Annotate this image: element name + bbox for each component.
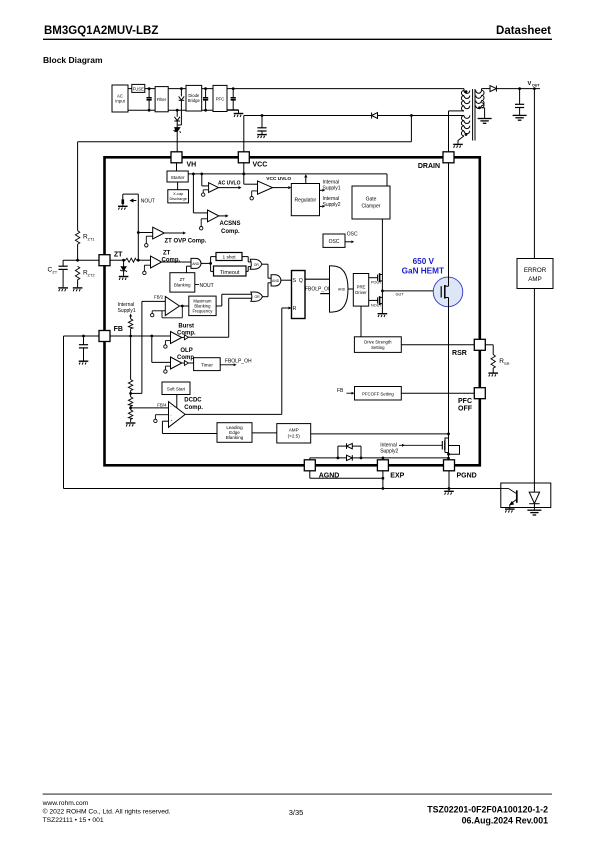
Drive Strength Setting box <box>360 306 362 337</box>
svg-text:SR: SR <box>504 361 510 366</box>
svg-text:ERROR: ERROR <box>524 267 547 274</box>
Starter box <box>167 171 188 182</box>
transformer secondary winding <box>476 89 485 118</box>
wires to OR1 <box>242 257 252 272</box>
driver output FET high side <box>369 273 383 291</box>
wire NOUT rail down to ZT comparators <box>137 194 139 260</box>
pin PGND <box>444 460 455 471</box>
svg-text:VCC: VCC <box>253 162 268 169</box>
svg-text:OR: OR <box>254 263 260 267</box>
comparator DCDC <box>169 402 186 428</box>
svg-text:Q: Q <box>299 278 303 284</box>
capacitor CFB <box>83 336 85 361</box>
FB/2 ref + feedback <box>152 306 182 318</box>
svg-text:Bridge: Bridge <box>188 98 201 103</box>
svg-text:PFCOFF Setting: PFCOFF Setting <box>362 392 394 397</box>
svg-text:OSC: OSC <box>347 232 358 238</box>
svg-text:Comp.: Comp. <box>221 229 240 235</box>
wire ZT pin internal with series resistor <box>110 259 151 261</box>
svg-text:NOUT: NOUT <box>200 283 214 289</box>
resistor RZT1 <box>75 231 79 245</box>
svg-text:EXP: EXP <box>390 473 404 480</box>
wire AGND/EXP tie <box>310 471 383 489</box>
svg-text:AND: AND <box>272 279 280 283</box>
wire AC top rail <box>128 88 464 90</box>
wire FB/2 comp to MBF <box>180 305 189 307</box>
comparator FB/2 (max blanking) <box>165 296 179 315</box>
pin VCC <box>238 152 249 163</box>
svg-text:R: R <box>293 306 297 312</box>
wire ZT sense tap <box>78 116 412 231</box>
svg-text:GUT: GUT <box>396 293 405 297</box>
wire secondary ground rail <box>64 488 501 490</box>
wire AND out split to 1shot/Timeout <box>201 257 216 272</box>
svg-text:ZT2: ZT2 <box>88 273 96 278</box>
svg-text:Blanking: Blanking <box>174 283 191 288</box>
gate OR2 <box>251 292 263 301</box>
wire MBF to OR2 <box>216 294 252 306</box>
startup zener to VH <box>174 128 181 153</box>
svg-text:AC UVLO: AC UVLO <box>218 180 241 186</box>
svg-text:Gate: Gate <box>366 197 377 203</box>
Gate Clamper box <box>352 186 390 219</box>
svg-text:GaN HEMT: GaN HEMT <box>402 266 444 275</box>
OSC box <box>323 234 345 247</box>
wire Starter output to VCC rail <box>188 173 387 175</box>
wire VCC UVLO output <box>273 187 289 189</box>
wire AC UVLO input <box>202 174 209 186</box>
wire AMP to sense node <box>311 433 449 435</box>
svg-text:Block Diagram: Block Diagram <box>43 55 103 65</box>
svg-text:Drive Strength: Drive Strength <box>364 340 392 345</box>
gate AND (driver enable) <box>330 266 349 312</box>
comparator ZT OVP <box>153 227 165 239</box>
svg-text:3/35: 3/35 <box>289 808 304 817</box>
650 V GaN HEMT <box>433 277 463 307</box>
capacitor CZT <box>59 266 68 269</box>
NOUT discharge switch <box>123 194 139 206</box>
X-capacitor 2 <box>205 89 207 111</box>
wire FB external <box>64 336 100 489</box>
GaN HEMT symbol <box>441 163 448 434</box>
gate OR1 <box>250 259 262 269</box>
VCC capacitor <box>261 116 263 135</box>
svg-text:VCC UVLO: VCC UVLO <box>266 176 291 182</box>
svg-text:Supply2: Supply2 <box>380 449 398 455</box>
svg-text:POUT: POUT <box>371 280 382 284</box>
ZT Blanking box <box>170 273 195 292</box>
node NOUT into ZT Blanking <box>195 284 199 286</box>
AMP x2.5 box <box>277 424 311 443</box>
svg-text:AGND: AGND <box>319 473 340 480</box>
gate AND2 <box>271 275 281 286</box>
svg-text:Internal: Internal <box>323 180 340 186</box>
wire Drive Strength to RSR <box>401 344 474 346</box>
wire FB/2 tap <box>131 301 166 393</box>
opto LED <box>529 483 539 510</box>
wire VCC pin down <box>243 163 245 184</box>
Timer box <box>194 358 221 371</box>
svg-text:© 2022 ROHM Co., Ltd. All righ: © 2022 ROHM Co., Ltd. All rights reserve… <box>43 808 171 816</box>
svg-text:OFF: OFF <box>458 406 473 413</box>
ACSNS ref input <box>201 219 207 227</box>
wire current sense input from LEB <box>162 421 217 433</box>
wire OLP branch <box>152 336 171 362</box>
wire Gate Clamper down to driver rail <box>381 219 383 274</box>
pin DRAIN <box>443 152 454 163</box>
svg-text:NOUT: NOUT <box>371 303 382 307</box>
wire Vout sense down to error amp <box>533 89 535 259</box>
wire big AND to PRE driver <box>348 288 353 290</box>
svg-text:BM3GQ1A2MUV-LBZ: BM3GQ1A2MUV-LBZ <box>44 25 158 37</box>
latch SR <box>292 271 306 319</box>
wire ACSNS output <box>219 215 226 217</box>
OLP output buffer <box>184 361 188 366</box>
X-cap Discharge box <box>168 190 189 203</box>
Regulator input from VCC rail <box>305 175 307 184</box>
transformer core <box>473 89 475 141</box>
output diode <box>490 86 540 92</box>
AC UVLO ref input <box>203 190 208 193</box>
transformer primary winding <box>449 89 470 153</box>
Diode Bridge box <box>186 85 202 111</box>
svg-text:VH: VH <box>187 162 197 169</box>
svg-text:FB: FB <box>337 388 344 394</box>
svg-text:Filter: Filter <box>157 97 167 102</box>
transformer aux winding <box>458 116 470 144</box>
wire Burst to OR2 <box>188 298 252 337</box>
svg-text:(×2.5): (×2.5) <box>288 434 301 439</box>
svg-text:PFC: PFC <box>216 96 225 101</box>
svg-text:AMP: AMP <box>528 276 541 283</box>
Filter box <box>155 87 168 112</box>
svg-text:ZT1: ZT1 <box>88 237 96 242</box>
node Internal Supply2 <box>320 205 323 207</box>
svg-text:OSC: OSC <box>329 239 340 245</box>
svg-text:FBOLP_OH: FBOLP_OH <box>225 359 252 365</box>
svg-text:AND: AND <box>192 262 200 266</box>
svg-text:ZT: ZT <box>180 277 186 282</box>
svg-text:FB: FB <box>114 326 123 333</box>
Leading Edge Blanking box <box>217 423 252 443</box>
wire VCC supply line from aux winding <box>244 116 464 153</box>
svg-text:www.rohm.com: www.rohm.com <box>42 800 89 807</box>
PFC box <box>213 85 227 111</box>
gate AND (ZT) <box>191 258 201 268</box>
pin EXP <box>377 460 388 471</box>
svg-text:650 V: 650 V <box>413 257 435 266</box>
1 shot box <box>216 253 242 261</box>
wire PFCOFF to pin <box>401 392 474 394</box>
pin FB <box>99 331 110 342</box>
wire AC UVLO output <box>218 187 238 189</box>
wire ZT OVP input <box>138 232 152 234</box>
svg-text:ACSNS: ACSNS <box>220 221 241 227</box>
comparator Burst <box>171 332 182 344</box>
wire PFC return to ground <box>227 110 239 114</box>
diode DVCC (points left) <box>372 113 378 119</box>
PRE Driver box <box>353 274 368 307</box>
resistor FB pull-up <box>128 319 132 329</box>
FET internal supply2 <box>442 434 459 460</box>
svg-text:TSZ02201-0F2F0A100120-1-2: TSZ02201-0F2F0A100120-1-2 <box>427 805 548 815</box>
svg-text:1 shot: 1 shot <box>222 255 236 261</box>
svg-text:Supply1: Supply1 <box>118 308 136 314</box>
zener clamp at ZT <box>120 260 127 276</box>
Burst output buffer <box>184 335 188 340</box>
FUSE box <box>132 84 145 92</box>
wire ZT Blanking to AND <box>187 266 192 273</box>
svg-text:ZT: ZT <box>163 250 171 256</box>
svg-text:PRE: PRE <box>357 285 366 290</box>
svg-text:TSZ22111 • 15 • 001: TSZ22111 • 15 • 001 <box>43 817 104 824</box>
Timeout box <box>214 266 247 276</box>
DCDC ref input <box>155 415 168 420</box>
svg-text:FBOLP_OH: FBOLP_OH <box>305 287 332 293</box>
wire ZT Comp to AND <box>162 261 191 263</box>
svg-text:Soft Start: Soft Start <box>167 387 186 392</box>
resistor RZT2 <box>75 266 79 280</box>
wire AC bottom rail <box>128 109 239 111</box>
startup diode D1 <box>177 89 184 125</box>
Regulator box <box>291 184 319 216</box>
svg-text:Input: Input <box>115 99 125 104</box>
svg-text:PGND: PGND <box>457 473 477 480</box>
svg-text:06.Aug.2024 Rev.001: 06.Aug.2024 Rev.001 <box>462 816 548 826</box>
wire Soft Start to DCDC <box>176 395 178 409</box>
pin PFC OFF <box>474 388 485 399</box>
Soft Start box <box>162 382 190 395</box>
AC Input box <box>112 85 128 112</box>
svg-text:Timeout: Timeout <box>220 270 240 276</box>
driver output FET low side <box>369 291 383 313</box>
wire OLP to Timer <box>188 362 193 364</box>
svg-text:Burst: Burst <box>178 324 194 330</box>
wire VCC rail to Gate Clamper <box>386 174 388 186</box>
svg-text:RSR: RSR <box>452 350 467 357</box>
AGND clamp diode pair <box>310 446 449 460</box>
svg-text:Supply1: Supply1 <box>323 186 341 192</box>
svg-text:Discharge: Discharge <box>169 196 187 201</box>
X-capacitor 1 <box>148 89 150 111</box>
svg-text:FB/4: FB/4 <box>157 402 167 407</box>
wire secondary to Vout <box>482 88 491 90</box>
svg-text:OUT: OUT <box>532 84 540 88</box>
svg-text:OR: OR <box>254 295 260 299</box>
svg-text:ZT: ZT <box>114 252 123 259</box>
svg-text:Clamper: Clamper <box>362 204 381 210</box>
wire FB/4 tap to DCDC <box>131 407 169 409</box>
svg-text:Supply2: Supply2 <box>323 202 341 208</box>
diode down (points right) <box>347 455 353 461</box>
wire FB internal <box>110 335 171 337</box>
node FBOLP_OH into AND <box>320 293 329 295</box>
comparator ACSNS <box>208 210 219 222</box>
wire LEB to AMP <box>252 432 277 434</box>
comparator VCC UVLO <box>244 183 258 185</box>
wire OR1 to AND2 <box>262 264 271 278</box>
wire VH to Starter <box>176 163 178 171</box>
svg-text:OLP: OLP <box>180 348 192 354</box>
output capacitor <box>519 89 521 115</box>
svg-text:ZT OVP Comp.: ZT OVP Comp. <box>165 238 207 244</box>
node FBOLP_OH out <box>220 364 233 366</box>
ERROR AMP box <box>517 259 553 289</box>
wire ACSNS input <box>193 174 207 213</box>
svg-text:Comp.: Comp. <box>184 405 203 411</box>
wire PGND to ground <box>448 471 450 491</box>
svg-text:AND: AND <box>338 288 346 292</box>
optocoupler <box>501 483 551 508</box>
VCC UVLO ref input <box>252 191 258 197</box>
resistor RSR external <box>485 345 493 373</box>
startup diode D2 <box>174 110 180 128</box>
bulk capacitor after PFC <box>232 89 234 110</box>
svg-text:Setting: Setting <box>371 345 385 350</box>
header rule <box>43 38 552 40</box>
pin AGND <box>304 460 315 471</box>
pin RSR <box>474 339 485 350</box>
svg-text:DRAIN: DRAIN <box>418 163 440 170</box>
node Internal Supply1 <box>320 189 323 191</box>
wire GUT gate drive <box>382 290 441 292</box>
svg-text:Starter: Starter <box>171 175 185 180</box>
wire error amp to optocoupler LED <box>533 289 535 493</box>
svg-text:V: V <box>528 81 532 87</box>
wire AND2 to latch S <box>281 279 292 281</box>
diode up (points left) <box>347 443 353 449</box>
comparator OLP <box>171 357 182 369</box>
PFCOFF Setting box <box>355 387 402 401</box>
comparator AC UVLO <box>209 183 219 193</box>
svg-text:DCDC: DCDC <box>184 398 202 404</box>
svg-text:ZT: ZT <box>52 270 57 275</box>
wire OR2 to AND2 <box>263 283 272 297</box>
svg-text:FB/2: FB/2 <box>154 295 164 300</box>
svg-text:PFC: PFC <box>458 398 472 405</box>
svg-text:NOUT: NOUT <box>141 198 155 204</box>
pin VH <box>171 152 182 163</box>
wire Starter to X-cap Discharge <box>177 182 179 190</box>
FB divider <box>130 336 132 422</box>
svg-text:Regulator: Regulator <box>295 198 317 204</box>
wire latch Q to big AND <box>305 278 330 280</box>
svg-text:FUSE: FUSE <box>133 86 144 91</box>
svg-text:Blanking: Blanking <box>226 435 244 440</box>
svg-text:AMP: AMP <box>289 428 299 433</box>
svg-text:Datasheet: Datasheet <box>496 25 551 37</box>
comparator ZT Comp <box>151 256 162 268</box>
svg-text:Timer: Timer <box>201 363 213 369</box>
pin ZT <box>99 255 110 266</box>
wire DCDC output to latch R <box>185 308 288 414</box>
node OSC <box>345 241 351 243</box>
Maximum Blanking Frequency box <box>189 296 216 316</box>
wire ZT pin external <box>63 260 99 287</box>
svg-text:Driver: Driver <box>355 290 367 295</box>
svg-text:Frequency: Frequency <box>193 309 214 314</box>
